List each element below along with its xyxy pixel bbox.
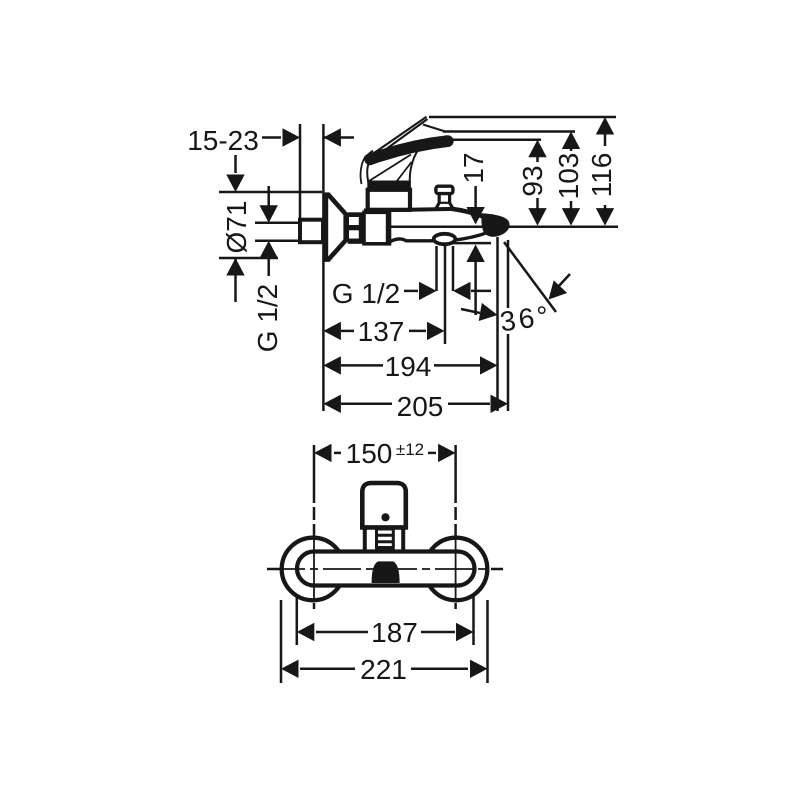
svg-text:150: 150	[346, 438, 393, 469]
svg-text:116: 116	[586, 153, 617, 198]
svg-text:194: 194	[385, 351, 432, 382]
svg-text:93: 93	[517, 165, 548, 196]
svg-text:15-23: 15-23	[187, 125, 259, 156]
svg-text:205: 205	[397, 391, 444, 422]
svg-text:187: 187	[371, 617, 418, 648]
svg-text:G 1/2: G 1/2	[332, 278, 400, 309]
svg-text:±12: ±12	[396, 440, 424, 459]
svg-text:G 1/2: G 1/2	[252, 284, 283, 352]
svg-text:103: 103	[553, 153, 584, 200]
svg-text:137: 137	[358, 316, 405, 347]
svg-text:17: 17	[458, 152, 489, 183]
svg-text:221: 221	[360, 654, 407, 685]
svg-text:Ø71: Ø71	[221, 201, 252, 254]
